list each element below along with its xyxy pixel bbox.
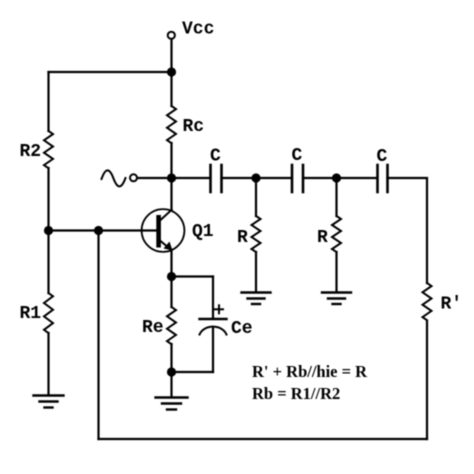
svg-text:R1: R1: [20, 304, 42, 324]
wire Vcc stem: [170, 39, 172, 72]
wire R2nd to ground: [335, 252, 337, 292]
svg-text:Rc: Rc: [183, 117, 205, 137]
svg-text:Rb = R1//R2: Rb = R1//R2: [252, 384, 340, 403]
svg-text:Ce: Ce: [231, 319, 253, 339]
wire top rail: [49, 71, 172, 73]
ground R first: [242, 293, 271, 305]
ground R second: [322, 293, 351, 305]
wire R2 to base node: [47, 168, 49, 231]
wire collector node to C1: [172, 177, 211, 179]
node collector junction: [167, 173, 176, 182]
svg-text:C: C: [210, 147, 221, 167]
node base-left junction: [44, 226, 53, 235]
svg-text:R' + Rb//hie = R: R' + Rb//hie = R: [252, 362, 368, 381]
node feedback tap junction: [94, 226, 103, 235]
wire base rail: [49, 229, 157, 231]
wire feedback vertical: [97, 231, 99, 440]
wire emitter to Re: [170, 277, 172, 308]
resistor R1: [44, 293, 53, 333]
resistor Rc: [170, 72, 172, 106]
node RC1 junction: [251, 173, 260, 182]
wire source to collector node: [137, 177, 171, 179]
svg-text:C: C: [377, 147, 388, 167]
resistor R': [423, 283, 432, 320]
wire R1st to ground: [255, 252, 257, 292]
node emitter top junction: [167, 272, 176, 281]
svg-text:Q1: Q1: [192, 222, 214, 242]
resistor R second: [335, 178, 337, 216]
wire R1 to ground: [47, 333, 49, 395]
source sine symbol: [102, 170, 126, 186]
wire C3 to right corner: [388, 178, 428, 283]
wire emitter vertical: [170, 250, 172, 277]
ground emitter: [156, 398, 188, 410]
capacitor C3: [378, 165, 388, 192]
wire C1 to node1: [222, 177, 257, 179]
wire Re to emitter bottom node: [170, 344, 172, 372]
wire collector vertical: [170, 178, 172, 210]
capacitor Ce: [200, 277, 227, 373]
capacitor C2: [292, 165, 303, 192]
node Vcc rail junction: [167, 67, 176, 76]
svg-text:R: R: [317, 228, 328, 248]
wire R' down right side: [426, 321, 428, 439]
resistor R first: [255, 178, 257, 216]
transistor Q1: [142, 209, 185, 252]
wire left drop to R2: [47, 72, 49, 131]
plus sign of Ce: [215, 305, 223, 313]
wire base node to R1: [47, 231, 49, 294]
capacitor C1: [211, 165, 222, 192]
source terminal circle: [130, 174, 137, 181]
svg-text:R: R: [237, 228, 248, 248]
svg-text:Re: Re: [142, 318, 164, 338]
wire bottom of Ce branch: [172, 371, 214, 373]
ground R1: [34, 396, 64, 408]
svg-text:C: C: [292, 146, 303, 166]
wire bottom feedback rail: [99, 438, 428, 440]
svg-text:Vcc: Vcc: [182, 20, 214, 40]
wire emitter node to Ce branch: [172, 275, 214, 277]
resistor R2: [44, 131, 53, 168]
node RC2 junction: [332, 173, 341, 182]
resistor Re: [167, 307, 176, 344]
Vcc terminal circle: [168, 32, 175, 39]
wire ground stem emitter: [170, 372, 172, 397]
svg-text:R': R': [441, 295, 463, 315]
svg-text:R2: R2: [20, 142, 42, 162]
wire node2 to C3: [337, 177, 378, 179]
wire Rc to collector node: [170, 143, 172, 178]
wire node1 to C2: [256, 177, 292, 179]
wire C2 to node2: [303, 177, 337, 179]
node emitter bottom junction: [167, 367, 176, 376]
